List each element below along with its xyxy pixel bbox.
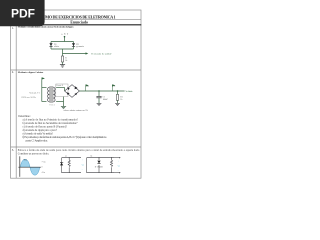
output labels a (82, 160, 85, 172)
transformer T1 core (50, 87, 54, 103)
svg-text:silicio: silicio (54, 46, 59, 48)
wire join (51, 48, 74, 50)
node C marker (112, 85, 115, 91)
bridge diodes ticks (67, 86, 78, 95)
PDF badge (0, 0, 45, 26)
row separator 1/2 (11, 69, 142, 71)
output arrows b (114, 158, 119, 173)
table outer border (11, 10, 142, 178)
svg-text:Vo (tensão de saída)?: Vo (tensão de saída)? (91, 53, 112, 56)
transformer primary winding (48, 87, 50, 101)
wire primary top (42, 87, 47, 89)
node A marker (source) (42, 78, 45, 81)
svg-text:PDF: PDF (11, 6, 35, 20)
sine fill (20, 159, 40, 175)
transformer secondary winding (53, 87, 55, 101)
ground resistor (115, 103, 120, 105)
resistor a zigzag (68, 160, 70, 167)
svg-text:germanio: germanio (76, 45, 84, 48)
row 3 intro text (18, 149, 140, 155)
svg-text:220V cm. 50 Hz: 220V cm. 50 Hz (21, 97, 35, 99)
svg-text:+5v: +5v (61, 33, 69, 36)
wire output tee (63, 53, 86, 55)
question list (18, 115, 107, 143)
svg-text:1k: 1k (65, 60, 67, 62)
ground bridge (61, 106, 66, 108)
diode a (left branch) (60, 162, 63, 165)
axis vertical (19, 156, 21, 177)
svg-text:+Vm: +Vm (41, 161, 46, 163)
diode D1 (49, 43, 52, 46)
resistor R (61, 56, 63, 62)
wire supply down (51, 36, 86, 56)
wire primary bottom (41, 88, 43, 102)
svg-text:T1 1:1: T1 1:1 (49, 104, 54, 106)
svg-text:D 1N4001: D 1N4001 (95, 167, 103, 169)
wire left branch (50, 42, 52, 50)
resistor b zigzag (110, 160, 112, 167)
bridge rectifier diamond (65, 85, 80, 98)
ground capacitor (97, 103, 102, 105)
ground (60, 65, 65, 68)
axis horizontal (18, 166, 41, 168)
wire right branch (73, 42, 75, 50)
svg-text:ponto C? Amplie valor.: ponto C? Amplie valor. (26, 139, 48, 142)
svg-text:Enunciado: Enunciado (70, 20, 88, 24)
svg-text:Mediante a figura 2 abaixo: Mediante a figura 2 abaixo (18, 71, 44, 74)
wire box a (62, 158, 81, 173)
svg-text:Vent pri. T1: Vent pri. T1 (29, 92, 39, 94)
wire output drop (62, 49, 64, 56)
bridge block box (56, 84, 68, 97)
diode D2 (72, 43, 75, 46)
row separator 2/3 (11, 146, 142, 148)
svg-text:0: 0 (42, 166, 43, 168)
right tick labels (41, 161, 46, 174)
wire source (42, 80, 47, 101)
svg-text:valores abaixo variam em 5%: valores abaixo variam em 5% (64, 110, 89, 112)
svg-text:-Vm: -Vm (41, 172, 45, 174)
svg-text:Considere as provas no diodo.: Considere as provas no diodo. (18, 153, 50, 156)
capacitor C1 (96, 91, 101, 103)
svg-text:2.: 2. (12, 70, 15, 74)
resistor R1 (116, 91, 118, 103)
output labels b (118, 161, 121, 172)
header row line under title (11, 19, 142, 21)
thick black header bottom border (10, 24, 141, 26)
wire resistor to ground (62, 62, 64, 65)
svg-text:RESUMO DE EXERCICIOS DE ELETRO: RESUMO DE EXERCICIOS DE ELETRONICA 1 (36, 14, 116, 19)
junction dots bottom circuits (69, 157, 112, 158)
arrow Vo output (86, 52, 89, 54)
wire secondary to bridge (56, 88, 65, 107)
wire box b (87, 158, 114, 173)
svg-text:3.: 3. (12, 148, 15, 152)
svg-text:+Vm: +Vm (23, 160, 28, 162)
wire bridge output (79, 90, 124, 92)
svg-text:100uF: 100uF (103, 99, 109, 101)
node B marker (86, 85, 89, 91)
svg-text:1.: 1. (12, 26, 15, 30)
number column divider (15, 20, 17, 179)
svg-text:Puente D: Puente D (56, 85, 63, 87)
diode b (middle, down) (97, 161, 100, 164)
svg-text:Vo Salida: Vo Salida (125, 91, 132, 93)
svg-text:1k: 1k (120, 99, 122, 101)
wire top rail (51, 41, 74, 43)
